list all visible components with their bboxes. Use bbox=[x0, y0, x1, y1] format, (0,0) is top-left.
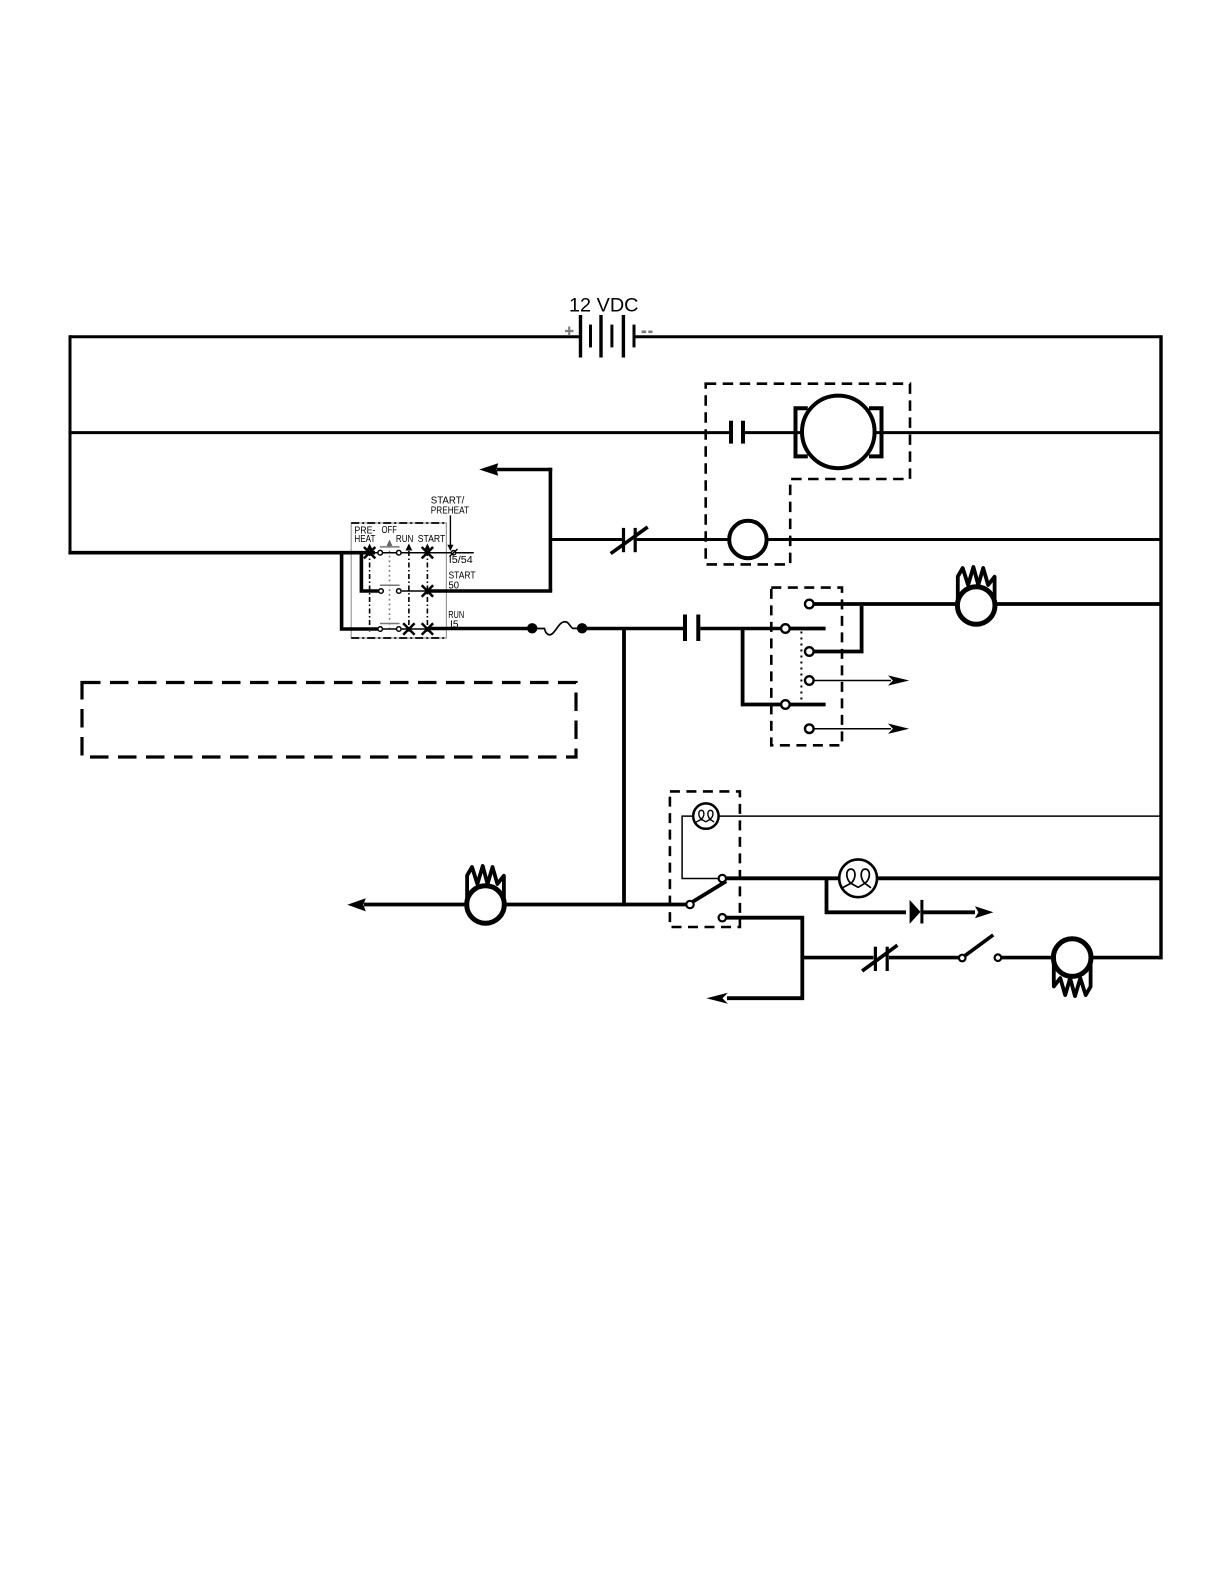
dashed box: harness outline bbox=[82, 683, 576, 758]
dashed box: starter assembly bbox=[706, 384, 910, 565]
wire: lamp L1 left leg bbox=[682, 816, 718, 878]
motor M1 starter motor bbox=[796, 396, 882, 469]
svg-text:PREHEAT: PREHEAT bbox=[431, 505, 469, 516]
battery B1 12 VDC bbox=[565, 296, 653, 358]
breaker F2 (slash) on solenoid line bbox=[611, 527, 648, 554]
svg-text:12 VDC: 12 VDC bbox=[569, 296, 639, 317]
wire: accessory line to breaker bbox=[802, 956, 873, 960]
wire: solenoid line bbox=[550, 538, 622, 541]
wire: start-50 riser and arrow to starter bbox=[479, 463, 552, 591]
switch S2 terminals and arm bbox=[686, 875, 726, 922]
svg-text:OFF: OFF bbox=[382, 525, 398, 536]
connector terminal T5 (arm) bbox=[781, 700, 790, 709]
connector terminal T1 bbox=[805, 600, 814, 609]
wire: feed hook to START-50 row bbox=[361, 553, 378, 591]
wire: switch S3 to glow plug GP3 bbox=[1001, 956, 1161, 960]
wire: branch to diode bbox=[827, 878, 907, 912]
glow plug GP1 bbox=[957, 587, 995, 625]
wire: drop to lower connector terminal bbox=[743, 629, 782, 705]
capacitor C1 (starter) bbox=[729, 421, 733, 444]
indicator lamp L1 bbox=[693, 803, 718, 828]
wire: glow plug feed line with arrow bbox=[364, 903, 686, 907]
label: START/PREHEAT callout with arrow bbox=[431, 496, 469, 551]
wire: starter motor line bbox=[70, 431, 729, 434]
glow plug GP3 bbox=[1053, 939, 1091, 977]
diode D1 bbox=[910, 900, 975, 924]
wire: T1 to glow plug GP1 bbox=[814, 602, 1161, 606]
dotted gang link bbox=[800, 632, 802, 700]
wire: RUN-15 line bbox=[430, 627, 528, 631]
wire: +12V top bus bbox=[70, 335, 579, 338]
wire: headlight line bbox=[727, 876, 1161, 880]
arrow: bottom left bbox=[706, 993, 728, 1004]
solenoid K1 bbox=[729, 521, 766, 558]
wire: breaker to switch S3 bbox=[889, 956, 959, 960]
arrow: to glow plugs (left) bbox=[347, 898, 366, 911]
breaker F3 bbox=[862, 945, 897, 971]
wire: fuse to capacitor C2 bbox=[586, 627, 683, 631]
wire: right vertical return bus bbox=[1159, 335, 1162, 959]
wire: vertical drop to glow plug feed bbox=[622, 629, 626, 907]
switch S3 bbox=[959, 935, 1001, 961]
wire: capacitor C2 to connector bbox=[700, 627, 781, 631]
svg-text:I5/54: I5/54 bbox=[449, 555, 473, 566]
capacitor C2 bbox=[683, 615, 687, 642]
wire: left vertical feed bbox=[69, 335, 72, 554]
wire: thin lamp line to right bus bbox=[718, 815, 1161, 817]
arrow: diode output bbox=[975, 906, 994, 918]
connector terminal T4 with arrow bbox=[805, 675, 909, 685]
svg-text:RUN: RUN bbox=[396, 534, 414, 545]
headlamp H1 bbox=[839, 859, 877, 897]
glow plug GP2 bbox=[467, 886, 505, 924]
wire: battery feed to ignition switch row1 bbox=[68, 551, 375, 555]
svg-text:START: START bbox=[418, 534, 446, 545]
dashed box: connector J1 bbox=[771, 588, 842, 746]
connector terminal T3 bbox=[805, 647, 814, 656]
wire: feed drop to RUN-15 row bbox=[342, 553, 378, 629]
connector terminal T6 with arrow bbox=[805, 724, 909, 734]
dashed box: light switch S2 bbox=[670, 791, 740, 927]
fuse F1 bbox=[527, 622, 587, 635]
wire: S2 lower throw to down-run bbox=[726, 918, 802, 999]
wire: START-50 row to riser bbox=[429, 589, 552, 593]
switch S1 ignition (PRE-HEAT / OFF / RUN / START) bbox=[351, 523, 474, 638]
connector terminal T2 (arm) bbox=[781, 624, 790, 633]
wire: T3 jumper up to T1 line bbox=[814, 606, 862, 652]
svg-text:HEAT: HEAT bbox=[354, 534, 375, 545]
